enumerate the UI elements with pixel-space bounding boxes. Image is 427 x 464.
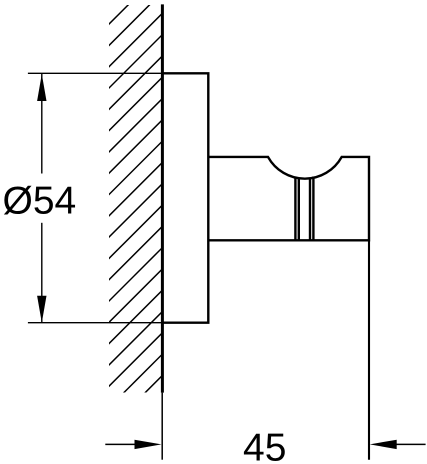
extension line left (45, wall face) [161, 393, 163, 460]
arrowhead down (Ø54 bottom) [37, 296, 46, 323]
arrowhead left-pointing (45 right) [370, 440, 397, 449]
hook stem line 3 [309, 178, 311, 240]
wall face line [161, 4, 164, 392]
hook stem line 1 [294, 177, 296, 240]
arrowhead right-pointing (45 left) [135, 440, 162, 449]
wall plate (side view rectangle) [162, 73, 208, 322]
hook body outline [208, 157, 369, 240]
hook stem line 2 [298, 178, 300, 240]
extension line right (45, hook tip) [368, 240, 370, 459]
svg-text:Ø54: Ø54 [3, 180, 77, 223]
dimension line Ø54 upper segment [41, 74, 43, 174]
extension line bottom (plate bottom, Ø54) [28, 322, 162, 324]
arrowhead up (Ø54 top) [37, 74, 46, 101]
dimension leader right (45) [395, 443, 426, 445]
dimension leader left (45) [105, 443, 136, 445]
svg-text:45: 45 [243, 426, 286, 464]
extension line top (plate top, Ø54) [28, 72, 162, 74]
wall hatching [101, 0, 166, 458]
dimension line Ø54 lower segment [41, 223, 43, 323]
hook stem line 4 [312, 177, 314, 240]
